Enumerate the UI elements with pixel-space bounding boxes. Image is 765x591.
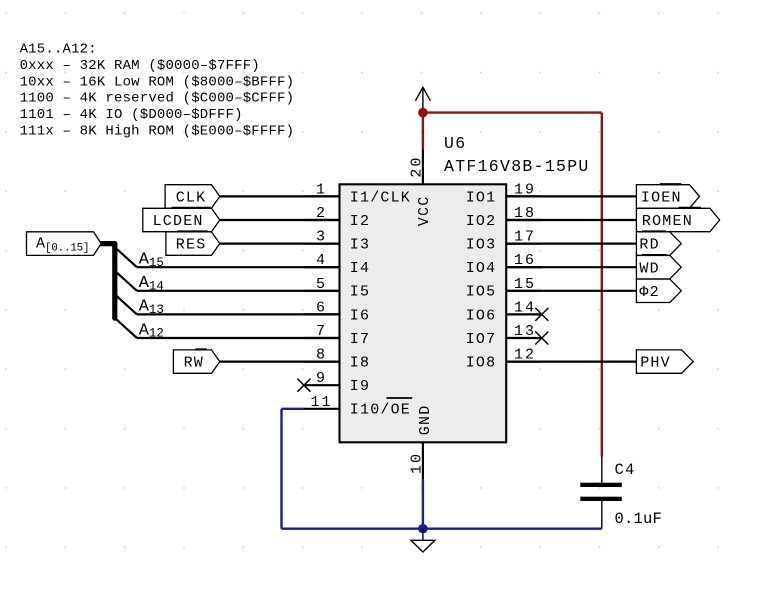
wire pin 16 to WD xyxy=(506,266,636,268)
svg-text:IOEN: IOEN xyxy=(641,190,682,207)
bus A[0..15] xyxy=(101,244,115,319)
no-connect X on pin 13 xyxy=(535,332,548,345)
wire A13 to pin 6 xyxy=(137,313,340,315)
pin 9 (I9) xyxy=(304,370,370,395)
global label IOEN xyxy=(636,184,699,208)
junction VCC node xyxy=(418,108,428,118)
svg-text:RD: RD xyxy=(639,237,659,254)
pin 14 (IO6) xyxy=(466,299,542,324)
svg-text:U6: U6 xyxy=(444,134,466,153)
wire A14 to pin 5 xyxy=(137,290,340,292)
svg-text:9: 9 xyxy=(316,370,327,387)
svg-text:8: 8 xyxy=(316,347,327,364)
svg-text:IO8: IO8 xyxy=(466,355,497,372)
global label RES xyxy=(166,231,220,255)
note: memory map text block xyxy=(20,42,295,140)
svg-text:I9: I9 xyxy=(350,378,370,395)
svg-text:CLK: CLK xyxy=(176,190,207,207)
wire A15 to pin 4 xyxy=(137,266,340,268)
svg-text:11: 11 xyxy=(310,394,332,411)
IC U6 body (ATF16V8B-15PU PLD) xyxy=(340,184,507,442)
wire pin 18 to ROMEN xyxy=(506,219,636,221)
bus label A[0..15] xyxy=(27,232,102,256)
svg-text:I7: I7 xyxy=(350,331,370,348)
wire pin 15 to PHI2 xyxy=(506,290,636,292)
svg-text:I10/OE: I10/OE xyxy=(350,402,411,419)
pin 7 (I7) xyxy=(304,323,370,348)
pin 6 (I6) xyxy=(304,299,370,324)
svg-text:7: 7 xyxy=(316,323,327,340)
svg-text:16: 16 xyxy=(514,252,536,269)
pin 4 (I4) xyxy=(304,252,370,277)
wire GND net: bottom horizontal xyxy=(282,528,602,530)
svg-text:111x – 8K High ROM ($E000–$FFF: 111x – 8K High ROM ($E000–$FFFF) xyxy=(20,124,295,140)
pin 18 (IO2) xyxy=(466,205,542,230)
svg-text:I2: I2 xyxy=(350,213,370,230)
svg-text:C4: C4 xyxy=(615,461,636,479)
svg-text:18: 18 xyxy=(514,205,536,222)
wire GND net: left vertical xyxy=(280,409,282,529)
pin 20 (VCC) xyxy=(408,149,433,226)
svg-text:IO4: IO4 xyxy=(466,260,497,277)
power symbol VCC xyxy=(415,87,430,112)
wire A14 bus entry diagonal xyxy=(116,271,137,290)
svg-text:17: 17 xyxy=(514,229,536,246)
svg-text:IO7: IO7 xyxy=(466,331,497,348)
wire CLK to pin 1 xyxy=(220,195,340,197)
svg-text:3: 3 xyxy=(316,229,327,246)
no-connect X on pin 14 xyxy=(535,308,548,321)
svg-text:RES: RES xyxy=(176,237,207,254)
wire A12 bus entry diagonal xyxy=(116,319,137,338)
svg-text:1: 1 xyxy=(316,181,327,198)
global label CLK xyxy=(165,185,220,208)
wire GND net: pin 10 to bottom rail xyxy=(422,479,424,529)
svg-text:A15..A12:: A15..A12: xyxy=(20,42,97,58)
svg-text:6: 6 xyxy=(316,299,327,316)
svg-text:12: 12 xyxy=(514,347,536,364)
wire pin 12 to PHV xyxy=(506,361,636,363)
svg-text:VCC: VCC xyxy=(416,196,433,227)
svg-text:14: 14 xyxy=(514,299,536,316)
svg-text:0.1uF: 0.1uF xyxy=(615,510,663,528)
pin 3 (I3) xyxy=(304,229,370,254)
svg-text:20: 20 xyxy=(408,156,425,178)
svg-text:I8: I8 xyxy=(350,355,370,372)
pin 11 (I10/OE) xyxy=(304,394,411,419)
wire pin 19 to IOEN xyxy=(506,195,636,197)
svg-text:IO1: IO1 xyxy=(466,189,497,206)
svg-text:GND: GND xyxy=(417,405,434,436)
pin 10 (GND) xyxy=(408,405,434,479)
svg-text:RW: RW xyxy=(184,355,204,372)
wire VCC net: horizontal run to C4 branch xyxy=(423,111,602,113)
svg-text:2: 2 xyxy=(316,205,327,222)
overline on OE of pin 11 name xyxy=(387,397,413,399)
pin 12 (IO8) xyxy=(466,347,542,372)
svg-text:IO6: IO6 xyxy=(466,307,497,324)
svg-text:ATF16V8B-15PU: ATF16V8B-15PU xyxy=(444,157,590,176)
no-connect X on pin 9 xyxy=(297,379,310,392)
junction GND node xyxy=(418,524,428,534)
svg-text:I4: I4 xyxy=(350,260,370,277)
svg-text:1100 – 4K reserved ($C000–$CFF: 1100 – 4K reserved ($C000–$CFFF) xyxy=(20,91,295,107)
svg-text:I5: I5 xyxy=(350,284,370,301)
svg-text:10: 10 xyxy=(408,452,425,474)
svg-text:WD: WD xyxy=(639,260,659,277)
pin 16 (IO4) xyxy=(466,252,542,277)
svg-text:5: 5 xyxy=(316,276,327,293)
wire pin 17 to RD xyxy=(506,243,636,245)
svg-text:IO2: IO2 xyxy=(466,213,497,230)
wire LCDEN to pin 2 xyxy=(220,219,340,221)
svg-text:I1/CLK: I1/CLK xyxy=(350,189,411,206)
svg-text:15: 15 xyxy=(514,276,536,293)
svg-text:I3: I3 xyxy=(350,237,370,254)
pin 13 (IO7) xyxy=(466,323,542,348)
global label LCDEN xyxy=(143,208,220,232)
wire VCC net: junction to pin 20 xyxy=(422,113,424,150)
svg-text:ROMEN: ROMEN xyxy=(642,213,693,230)
wire GND net: pin 11 stub to vertical xyxy=(282,408,305,410)
svg-text:PHV: PHV xyxy=(640,355,671,372)
svg-text:19: 19 xyxy=(514,181,536,198)
svg-text:10xx – 16K Low ROM ($8000–$BFF: 10xx – 16K Low ROM ($8000–$BFFF) xyxy=(20,74,295,90)
global label PHV xyxy=(636,350,693,373)
svg-text:13: 13 xyxy=(514,323,536,340)
pin 19 (IO1) xyxy=(466,181,542,206)
global label RD xyxy=(636,231,681,255)
svg-text:IO5: IO5 xyxy=(466,284,497,301)
capacitor C4 xyxy=(580,457,622,529)
wire A12 to pin 7 xyxy=(137,337,340,339)
wire VCC net: vertical run down to C4 xyxy=(601,113,603,457)
svg-text:I6: I6 xyxy=(350,307,370,324)
svg-text:1101 – 4K IO ($D000–$DFFF): 1101 – 4K IO ($D000–$DFFF) xyxy=(20,107,243,123)
pin 1 (I1/CLK) xyxy=(304,181,411,206)
global label WD xyxy=(636,255,681,279)
wire RES to pin 3 xyxy=(220,243,340,245)
global label RW xyxy=(173,349,219,373)
pin 8 (I8) xyxy=(304,347,370,372)
global label ROMEN xyxy=(636,208,719,232)
svg-text:IO3: IO3 xyxy=(466,237,497,254)
global label PHI2 xyxy=(636,279,681,302)
wire A15 bus entry diagonal xyxy=(116,248,137,267)
pin 2 (I2) xyxy=(304,205,370,230)
svg-text:4: 4 xyxy=(316,252,327,269)
pin 5 (I5) xyxy=(304,276,370,301)
wire A13 bus entry diagonal xyxy=(116,295,137,314)
pin 15 (IO5) xyxy=(466,276,542,301)
svg-text:Φ2: Φ2 xyxy=(639,284,659,301)
pin 17 (IO3) xyxy=(466,229,542,254)
wire RW to pin 8 xyxy=(220,361,340,363)
ground symbol xyxy=(411,529,435,552)
svg-text:LCDEN: LCDEN xyxy=(153,213,204,230)
svg-text:0xxx – 32K RAM ($0000–$7FFF): 0xxx – 32K RAM ($0000–$7FFF) xyxy=(20,58,260,74)
